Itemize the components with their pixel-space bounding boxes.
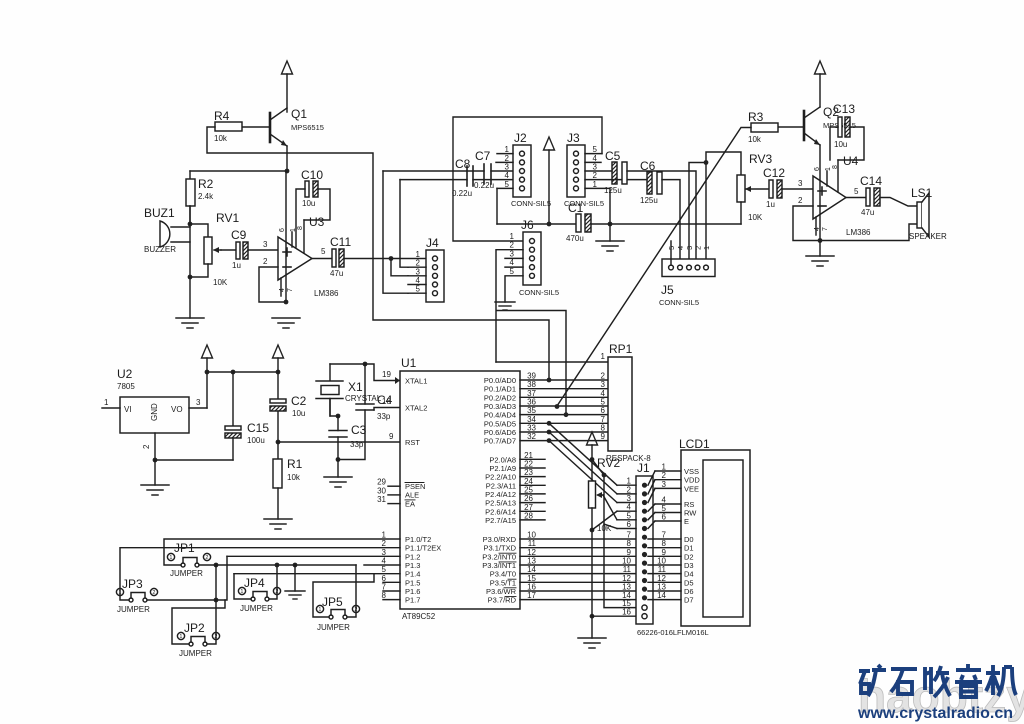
svg-text:19: 19 — [382, 370, 391, 379]
wire crystal bottom to C3 — [330, 399, 338, 417]
wire J3 pin3 to C5 — [585, 170, 612, 172]
node rail/arrow — [205, 370, 210, 375]
wires P0.0-P0.7 to RP1 (pins 39-32 / 2-9) — [520, 372, 608, 442]
svg-text:P3.2/INT0: P3.2/INT0 — [482, 552, 516, 561]
svg-text:1: 1 — [662, 463, 667, 472]
svg-text:35: 35 — [527, 406, 536, 415]
svg-text:C13: C13 — [833, 102, 855, 116]
wire J5 pin5 stub — [670, 241, 672, 265]
svg-text:D4: D4 — [684, 570, 694, 579]
svg-text:47u: 47u — [330, 269, 343, 278]
svg-text:3: 3 — [601, 380, 606, 389]
node P0.0/R4 net — [547, 378, 552, 383]
svg-text:2: 2 — [142, 444, 151, 449]
jumper JP4 — [238, 576, 280, 613]
svg-text:4: 4 — [382, 556, 387, 565]
resistor R4 — [214, 109, 242, 143]
ground (JP4) — [285, 591, 305, 599]
capacitor C10 — [296, 168, 330, 247]
buzzer BUZ1 — [144, 206, 190, 254]
svg-text:9: 9 — [627, 548, 632, 557]
power arrow VCC (U2 output) — [202, 345, 213, 358]
node ground branch — [293, 563, 298, 568]
node VCC/pin15 branch — [590, 457, 595, 462]
svg-text:J6: J6 — [521, 218, 534, 232]
wire J6 pin5 to ground — [505, 276, 523, 302]
wire ground branch — [294, 565, 296, 591]
svg-text:P0.6/AD6: P0.6/AD6 — [484, 428, 516, 437]
svg-text:17: 17 — [527, 591, 536, 600]
svg-text:7: 7 — [822, 227, 829, 231]
ground (U2) — [154, 460, 156, 485]
svg-text:4: 4 — [510, 258, 515, 267]
svg-text:47u: 47u — [861, 208, 874, 217]
svg-text:13: 13 — [657, 582, 666, 591]
svg-text:1: 1 — [179, 634, 182, 640]
svg-text:2: 2 — [205, 555, 208, 561]
ground (C1 bus) — [609, 224, 611, 241]
svg-text:7: 7 — [601, 415, 606, 424]
svg-text:1: 1 — [318, 607, 321, 613]
svg-text:LM386: LM386 — [846, 228, 871, 237]
svg-text:RV2: RV2 — [597, 456, 620, 470]
svg-text:R2: R2 — [198, 177, 214, 191]
node JP2 riser mid — [214, 598, 219, 603]
svg-text:GND: GND — [150, 403, 159, 421]
svg-text:27: 27 — [524, 503, 533, 512]
svg-text:6: 6 — [814, 167, 821, 171]
svg-text:1u: 1u — [766, 200, 775, 209]
svg-text:P2.7/A15: P2.7/A15 — [485, 516, 516, 525]
capacitor C9 — [221, 228, 278, 270]
svg-text:3: 3 — [798, 179, 803, 188]
jumper JP2 — [177, 621, 219, 658]
svg-text:CONN-SIL5: CONN-SIL5 — [519, 288, 559, 297]
wire diagonal P0.7 to J1 pin3 — [549, 441, 617, 503]
svg-text:10: 10 — [622, 556, 631, 565]
svg-text:1: 1 — [169, 555, 172, 561]
svg-text:10k: 10k — [214, 134, 228, 143]
wire JP2 pin1 loop — [172, 600, 225, 644]
svg-text:10: 10 — [657, 556, 666, 565]
svg-text:16: 16 — [527, 582, 536, 591]
svg-text:31: 31 — [377, 495, 386, 504]
svg-text:MPS6515: MPS6515 — [291, 123, 324, 132]
svg-text:24: 24 — [524, 477, 533, 486]
power arrow VCC (Q2 collector) — [815, 61, 826, 74]
capacitor C3 — [329, 416, 367, 460]
svg-text:5: 5 — [627, 511, 632, 520]
svg-text:29: 29 — [377, 478, 386, 487]
svg-text:3: 3 — [662, 480, 667, 489]
svg-text:7805: 7805 — [117, 382, 135, 391]
regulator U2 7805 — [102, 367, 207, 460]
svg-text:P0.1/AD1: P0.1/AD1 — [484, 385, 516, 394]
svg-text:7: 7 — [382, 582, 387, 591]
svg-text:4: 4 — [279, 288, 286, 292]
svg-text:36: 36 — [527, 397, 536, 406]
svg-text:12: 12 — [622, 574, 631, 583]
svg-text:13: 13 — [622, 582, 631, 591]
node U4 ground — [818, 238, 823, 243]
svg-text:X1: X1 — [348, 380, 363, 394]
svg-text:26: 26 — [524, 494, 533, 503]
wire C14 to speaker — [880, 198, 917, 207]
node rail/C2 — [276, 370, 281, 375]
svg-text:2: 2 — [263, 257, 268, 266]
node RV2 bottom — [590, 528, 595, 533]
svg-text:8: 8 — [662, 539, 667, 548]
ground (J6) — [495, 302, 515, 310]
svg-text:14: 14 — [527, 565, 536, 574]
svg-text:3: 3 — [382, 548, 387, 557]
svg-text:5: 5 — [505, 180, 510, 189]
svg-text:JUMPER: JUMPER — [240, 604, 273, 613]
svg-text:C6: C6 — [640, 159, 656, 173]
ground (R1) — [264, 519, 292, 529]
svg-text:7: 7 — [662, 531, 667, 540]
svg-text:3: 3 — [196, 398, 201, 407]
node crystal/C4 — [363, 362, 368, 367]
connector J5 CONN-SIL5 — [659, 246, 715, 307]
svg-text:P1.4: P1.4 — [405, 570, 420, 579]
capacitor C2 — [270, 394, 307, 442]
svg-text:C12: C12 — [763, 166, 785, 180]
svg-text:1: 1 — [505, 145, 510, 154]
svg-text:1: 1 — [382, 531, 387, 540]
svg-text:RST: RST — [405, 438, 420, 447]
svg-text:1: 1 — [510, 232, 515, 241]
svg-text:BUZZER: BUZZER — [144, 245, 176, 254]
svg-text:10k: 10k — [748, 135, 762, 144]
svg-text:VDD: VDD — [684, 476, 700, 485]
svg-text:R3: R3 — [748, 110, 764, 124]
svg-text:6: 6 — [601, 406, 606, 415]
wires J1 to LCD data stubs — [648, 539, 681, 600]
svg-text:125u: 125u — [640, 196, 658, 205]
svg-text:3: 3 — [510, 249, 515, 258]
svg-text:10u: 10u — [834, 140, 847, 149]
svg-text:JUMPER: JUMPER — [117, 605, 150, 614]
svg-text:2: 2 — [627, 485, 632, 494]
svg-text:D3: D3 — [684, 561, 694, 570]
potentiometer RV1 — [190, 211, 239, 287]
svg-text:4: 4 — [601, 389, 606, 398]
svg-text:P1.6: P1.6 — [405, 587, 420, 596]
pins P2.0-P2.7 stubs (21-28) — [520, 451, 545, 521]
svg-text:RV3: RV3 — [749, 152, 772, 166]
svg-text:J2: J2 — [514, 131, 527, 145]
node bus/C1 right — [608, 222, 613, 227]
svg-text:C8: C8 — [455, 157, 471, 171]
svg-text:37: 37 — [527, 389, 536, 398]
svg-text:LM386: LM386 — [314, 289, 339, 298]
node P0.7 — [547, 438, 552, 443]
capacitor C15 — [225, 372, 269, 460]
svg-text:XTAL1: XTAL1 — [405, 377, 427, 386]
op-amp U3 LM386 — [263, 171, 339, 302]
svg-text:JP3: JP3 — [122, 577, 143, 591]
svg-text:3: 3 — [416, 267, 421, 276]
op-amp U4 LM386 — [798, 145, 871, 240]
svg-text:2: 2 — [798, 196, 803, 205]
svg-text:J5: J5 — [661, 283, 674, 297]
node C3 bottom — [336, 457, 341, 462]
svg-text:1: 1 — [627, 477, 632, 486]
svg-text:4: 4 — [416, 276, 421, 285]
svg-text:1: 1 — [825, 167, 832, 171]
wires J1 to LCD short diagonals — [648, 471, 655, 529]
node C11/J4 — [389, 256, 394, 261]
crystal X1 — [316, 364, 382, 416]
svg-text:39: 39 — [527, 372, 536, 381]
wire W2 (J4.2 to C8 to J2.4) — [400, 179, 467, 181]
svg-text:11: 11 — [528, 539, 537, 548]
capacitor C8 — [452, 157, 473, 198]
svg-text:P0.4/AD4: P0.4/AD4 — [484, 411, 516, 420]
svg-text:25: 25 — [524, 485, 533, 494]
svg-text:VSS: VSS — [684, 467, 699, 476]
svg-text:33p: 33p — [377, 412, 391, 421]
wire J1 pin16 stub — [592, 615, 636, 617]
svg-text:JP5: JP5 — [322, 595, 343, 609]
svg-text:CONN-SIL5: CONN-SIL5 — [659, 298, 699, 307]
svg-text:C1: C1 — [568, 201, 584, 215]
svg-text:R4: R4 — [214, 109, 230, 123]
svg-text:8: 8 — [601, 423, 606, 432]
svg-text:P2.3/A11: P2.3/A11 — [486, 481, 516, 490]
wire P1.4 line — [234, 573, 400, 575]
svg-text:1u: 1u — [232, 261, 241, 270]
svg-text:1: 1 — [416, 250, 421, 259]
svg-text:C2: C2 — [291, 394, 307, 408]
svg-text:13: 13 — [527, 556, 536, 565]
svg-text:C10: C10 — [301, 168, 323, 182]
svg-text:28: 28 — [524, 511, 533, 520]
wire U3 pin2 feedback loop — [259, 267, 286, 302]
svg-text:9: 9 — [389, 432, 394, 441]
potentiometer RV3 — [737, 152, 772, 224]
svg-text:P2.4/A12: P2.4/A12 — [485, 490, 516, 499]
svg-text:P3.0/RXD: P3.0/RXD — [483, 535, 517, 544]
node buzzer top — [188, 222, 193, 227]
svg-text:JUMPER: JUMPER — [170, 569, 203, 578]
node P0.4/J6 net — [564, 412, 569, 417]
svg-text:8: 8 — [832, 165, 839, 169]
svg-text:C7: C7 — [475, 149, 491, 163]
svg-text:2.4k: 2.4k — [198, 192, 214, 201]
svg-text:18: 18 — [382, 397, 391, 406]
svg-text:5: 5 — [510, 267, 515, 276]
wire RV2 bottom diagonal to J1 pin4 — [592, 511, 617, 530]
svg-text:5: 5 — [382, 565, 387, 574]
svg-text:7: 7 — [627, 531, 632, 540]
svg-text:J4: J4 — [426, 236, 439, 250]
resistor R3 — [748, 110, 778, 144]
wire VO up to +5V rail — [207, 372, 278, 408]
power arrow VCC (RV2) — [587, 432, 598, 445]
svg-text:1: 1 — [702, 246, 711, 250]
ground (RV2/J1) — [578, 638, 606, 648]
svg-text:3: 3 — [263, 240, 268, 249]
svg-text:J3: J3 — [567, 131, 580, 145]
capacitor C7 — [474, 149, 494, 190]
wire buzzer column — [189, 206, 191, 318]
ground (U4) — [819, 241, 821, 257]
svg-text:P2.0/A8: P2.0/A8 — [489, 455, 516, 464]
svg-text:JP4: JP4 — [244, 576, 265, 590]
svg-text:2: 2 — [662, 471, 667, 480]
wire J6 pin2 to P0.4 node — [496, 250, 566, 415]
svg-text:33p: 33p — [350, 440, 364, 449]
svg-text:2: 2 — [593, 171, 598, 180]
pins PSEN ALE EA stubs — [377, 478, 400, 504]
svg-text:12: 12 — [657, 574, 666, 583]
pins P1.0-P1.7 numbers — [382, 531, 400, 601]
svg-text:16: 16 — [622, 608, 631, 617]
svg-text:470u: 470u — [566, 234, 584, 243]
wire R4 left to P0.0 net — [207, 127, 549, 380]
svg-text:P0.0/AD0: P0.0/AD0 — [484, 376, 516, 385]
svg-text:LCD1: LCD1 — [679, 437, 710, 451]
node Q1 emitter / U3 pin6 — [285, 169, 290, 174]
wire branch to J1 pin15 column — [592, 460, 636, 608]
power arrow VCC (C2 branch) — [273, 345, 284, 358]
svg-text:P1.5: P1.5 — [405, 578, 420, 587]
svg-text:33: 33 — [527, 423, 536, 432]
svg-text:4: 4 — [814, 227, 821, 231]
transistor Q1 — [242, 107, 324, 171]
node C3 top — [336, 414, 341, 419]
svg-text:2: 2 — [510, 241, 515, 250]
wire J3 pin2 to C6 — [585, 179, 647, 181]
svg-text:VEE: VEE — [684, 484, 699, 493]
svg-text:6: 6 — [627, 520, 632, 529]
svg-text:C3: C3 — [351, 423, 367, 437]
node U2 gnd — [153, 458, 158, 463]
watermark logo (hand-drawn CJK strokes) — [859, 664, 1016, 697]
svg-text:LS1: LS1 — [911, 186, 933, 200]
wire P1.4 to JP4 pin1 — [234, 574, 251, 599]
svg-text:D2: D2 — [684, 552, 694, 561]
connector J6 CONN-SIL5 — [505, 218, 559, 297]
svg-text:U3: U3 — [309, 215, 325, 229]
svg-text:BUZ1: BUZ1 — [144, 206, 175, 220]
wire R3 diagonal to P0.3 node — [557, 128, 751, 408]
wire JP1 pin2 along P1.3 row — [199, 564, 356, 566]
jumper JP3 — [116, 577, 157, 614]
svg-text:1: 1 — [593, 180, 598, 189]
resistor R1 — [273, 442, 303, 519]
node J5 net — [704, 160, 709, 165]
svg-text:2: 2 — [382, 539, 387, 548]
jumper JP1 — [167, 541, 210, 578]
resistor R2 — [186, 171, 214, 224]
svg-text:P0.3/AD3: P0.3/AD3 — [484, 402, 516, 411]
svg-text:22: 22 — [524, 459, 533, 468]
wire J2/J3 enclosure loop (J3 pin5 around top-left to J6 pin1) — [453, 117, 602, 241]
node JP4 riser — [275, 563, 280, 568]
potentiometer RV2 — [589, 456, 621, 638]
wire RST bus — [278, 441, 400, 443]
svg-text:C15: C15 — [247, 421, 269, 435]
node P0.5 — [547, 421, 552, 426]
capacitor C6 — [640, 159, 662, 205]
node rail/C15 — [231, 370, 236, 375]
svg-text:D0: D0 — [684, 535, 694, 544]
svg-text:3: 3 — [627, 494, 632, 503]
svg-text:www.crystalradio.cn: www.crystalradio.cn — [857, 705, 1013, 722]
svg-text:AT89C52: AT89C52 — [402, 612, 436, 621]
wire ground bus (J2.5 / C1 / RV3 bottom) — [497, 223, 741, 225]
svg-text:E: E — [684, 517, 689, 526]
node U3 ground — [284, 300, 289, 305]
svg-text:J1: J1 — [637, 461, 650, 475]
capacitor C5 — [604, 149, 627, 195]
IC U1 AT89C52 — [400, 356, 520, 621]
svg-text:P1.7: P1.7 — [405, 596, 420, 605]
ground (buzzer) — [176, 318, 204, 328]
svg-text:32: 32 — [527, 432, 536, 441]
svg-text:1: 1 — [104, 398, 109, 407]
svg-text:5: 5 — [321, 247, 326, 256]
svg-text:C11: C11 — [330, 235, 351, 249]
svg-text:P0.5/AD5: P0.5/AD5 — [484, 419, 516, 428]
svg-text:P0.7/AD7: P0.7/AD7 — [484, 437, 516, 446]
svg-text:CONN-SIL5: CONN-SIL5 — [511, 199, 551, 208]
svg-text:P3.4/T0: P3.4/T0 — [490, 570, 516, 579]
connector J1 — [617, 461, 653, 624]
svg-text:VI: VI — [124, 405, 132, 414]
svg-text:14: 14 — [657, 591, 666, 600]
svg-text:66226-016LFLM016L: 66226-016LFLM016L — [637, 628, 709, 637]
LCD module LCD1 — [637, 437, 750, 637]
svg-text:P2.2/A10: P2.2/A10 — [485, 473, 516, 482]
wire P1.2 line — [227, 555, 400, 557]
node buzzer bottom — [188, 275, 193, 280]
svg-text:5: 5 — [416, 285, 421, 294]
svg-text:11: 11 — [658, 565, 667, 574]
wire JP3 pin2 to P1.2 — [147, 556, 227, 600]
svg-text:7: 7 — [287, 288, 294, 292]
wire J3 pin1 down to bus node — [585, 188, 610, 224]
svg-text:5: 5 — [601, 397, 606, 406]
svg-text:9: 9 — [601, 432, 606, 441]
wire RP1 pin1 — [496, 352, 608, 362]
transistor Q2 — [777, 105, 856, 145]
wire diagonal P0.5 to J1 pin1 — [549, 423, 617, 485]
wire J4 pin2 up to W2 — [400, 180, 408, 268]
svg-text:Q1: Q1 — [291, 107, 307, 121]
wire C5 to J5 column — [627, 171, 696, 265]
wire P1.3 stub — [364, 564, 400, 566]
svg-text:P0.2/AD2: P0.2/AD2 — [484, 393, 516, 402]
svg-text:P1.3: P1.3 — [405, 561, 420, 570]
svg-text:ALE: ALE — [405, 491, 419, 500]
connector J3 CONN-SIL5 — [564, 131, 604, 208]
svg-text:10: 10 — [527, 531, 536, 540]
svg-text:P2.1/A9: P2.1/A9 — [489, 464, 516, 473]
wire C4 bottom to XTAL2 — [374, 408, 400, 411]
jumper JP5 — [316, 595, 359, 632]
svg-text:U2: U2 — [117, 367, 133, 381]
wires P3.0-P3.7 bus to J1 (10-17 / 7-14) — [520, 531, 636, 601]
capacitor C1 — [566, 201, 591, 243]
svg-text:EA: EA — [405, 499, 415, 508]
svg-text:SPEAKER: SPEAKER — [909, 232, 947, 241]
capacitor C4 — [356, 364, 393, 421]
svg-text:P3.6/WR: P3.6/WR — [486, 587, 517, 596]
